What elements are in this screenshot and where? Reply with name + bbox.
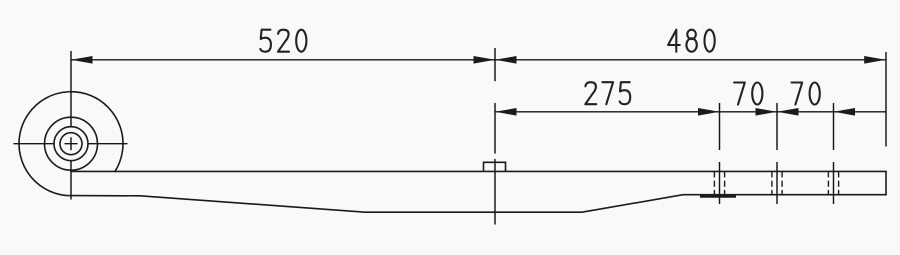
arrow left at 495 row2 xyxy=(495,108,517,116)
hole 1 centerline xyxy=(719,103,721,204)
label 480 xyxy=(668,30,715,52)
blade top edge xyxy=(71,170,886,172)
arrow right at 719.5 row2 xyxy=(698,108,720,116)
dimension line row 1 xyxy=(71,59,886,61)
eye wrap inner circle xyxy=(45,117,98,170)
eye bushing outer circle xyxy=(54,127,88,161)
eye outer wrap arc xyxy=(19,92,123,196)
right extension line x=886 xyxy=(885,52,887,147)
blade bottom edge xyxy=(71,195,886,213)
blade right end xyxy=(885,171,887,194)
center extension line x=495 xyxy=(494,48,496,225)
hole 3 hidden lines xyxy=(827,171,829,194)
clip bar under hole 1 xyxy=(700,195,736,198)
label 70 first xyxy=(734,83,762,105)
arrow right at 777 row2 xyxy=(756,108,778,116)
arrow right at 885.7 row1 xyxy=(864,56,886,64)
hole 2 centerline xyxy=(776,103,778,204)
hole 2 hidden lines xyxy=(771,171,773,194)
arrow left at 777 row2 xyxy=(777,108,799,116)
hole 1 hidden lines xyxy=(714,171,838,194)
arrow left at 71 row1 xyxy=(71,56,93,64)
dimension line row 2 xyxy=(495,111,886,113)
label 70 second xyxy=(792,83,820,105)
center bolt head bump xyxy=(484,162,506,171)
eye horizontal centerline xyxy=(14,143,128,145)
label 520 xyxy=(260,30,306,52)
hole 3 centerline xyxy=(833,103,835,204)
arrow right at 495 row1 xyxy=(474,56,496,64)
eye bushing inner circle xyxy=(60,133,82,155)
eye vertical centerline xyxy=(70,51,72,200)
label 275 xyxy=(585,82,630,104)
arrow left at 495 row1 xyxy=(495,56,517,64)
arrow left at 833.5 row2 xyxy=(834,108,856,116)
